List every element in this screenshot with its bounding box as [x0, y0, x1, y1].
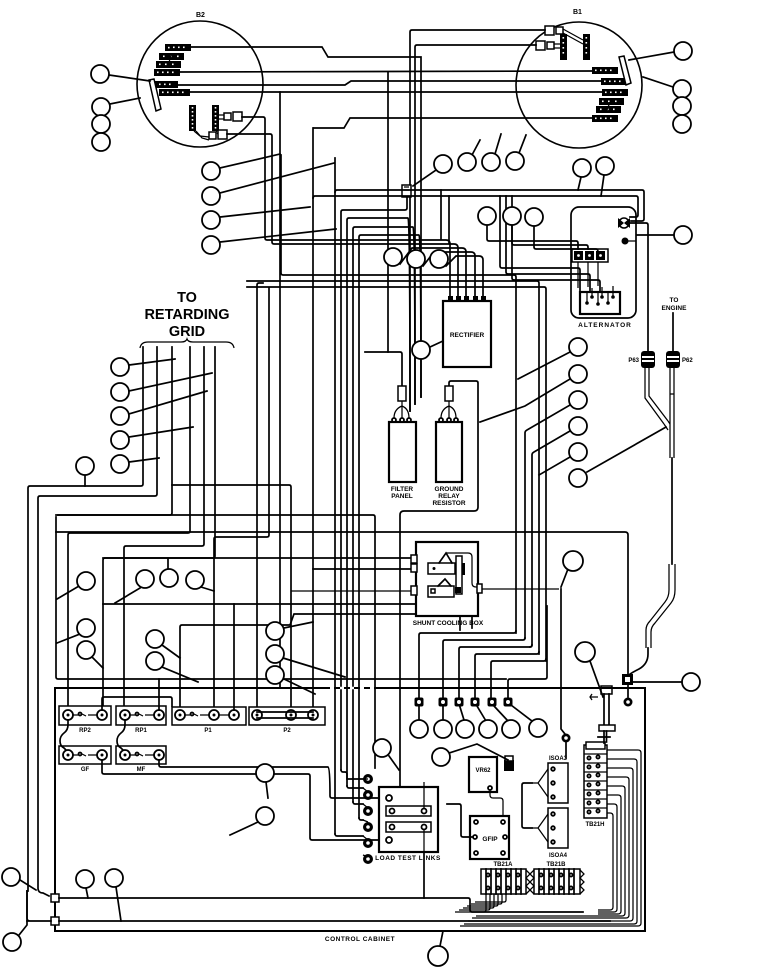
link between strips B2-2 and B2-3: [168, 55, 171, 66]
wire top run y46 from x415 to B1 connector C2: [415, 45, 536, 404]
wire bottom circle to corner: [19, 891, 27, 935]
hook RP1-L to MF-L: [117, 720, 125, 750]
wire filter panel fuse riser: [365, 352, 402, 386]
connector square right-bottom: [622, 674, 633, 685]
rectifier U1: [443, 296, 491, 367]
brace under retarding grid: [140, 339, 234, 348]
wire LTL bar2 down to bottom bus: [423, 852, 425, 898]
svg-text:B2: B2: [196, 12, 205, 19]
leader circle382: [389, 756, 399, 770]
connector B2-C1: [219, 112, 242, 121]
leader circle211,220: [220, 207, 310, 217]
shunt S2: [428, 586, 454, 597]
SCB right connector: [477, 584, 482, 593]
retarding grid wire 1: [28, 347, 143, 891]
terminal strip B2-3: [156, 61, 181, 68]
wire P2-M riser via y485: [172, 485, 291, 712]
terminal box RP1: [116, 706, 166, 734]
alternator strip to pins verticals: [578, 262, 598, 288]
terminal strip B2-2: [159, 53, 184, 60]
junction square J1: [51, 894, 59, 902]
wire X-circle to P63 drop: [630, 223, 648, 351]
svg-text:RETARDING: RETARDING: [144, 307, 229, 323]
leaders mid-left circles: [57, 559, 214, 603]
leader circle85,879: [86, 888, 88, 898]
rectifier pin wire 4: [423, 252, 475, 296]
terminal strip B2-5: [151, 81, 178, 88]
shunt S1: [428, 563, 455, 574]
wire P1-M riser x269: [214, 288, 269, 712]
wire corner into J2: [27, 891, 51, 921]
tap x449 to pin hook line: [448, 196, 450, 243]
callout circle left of rectifier box: [412, 341, 430, 359]
leader circle443,164 to connector: [413, 170, 436, 186]
riser P2-L x257 to y283: [257, 283, 263, 712]
crosshair mark: [598, 731, 610, 743]
cable below P63 (outlined): [645, 368, 668, 424]
riser x281 to long y275 to bundle: [281, 155, 516, 633]
vertical strip B2-B: [212, 105, 219, 131]
long horizontal y679 from cabinet left: [56, 517, 506, 679]
svg-text:TB21A: TB21A: [493, 862, 513, 868]
callout circle 691,682: [682, 673, 700, 691]
cable continues down right side: [671, 458, 673, 564]
LTL internal wires: [423, 782, 425, 852]
callout circle 585,652: [575, 642, 595, 662]
staircase wire 3 from x415: [353, 227, 415, 802]
svg-text:TO: TO: [670, 297, 679, 304]
wire connector down to ring terminal: [627, 685, 629, 697]
callout circle 573,561: [563, 551, 583, 571]
leaders circles 275 column: [283, 622, 345, 694]
load test links terminals: [363, 774, 373, 864]
slanted board in B2: [149, 79, 161, 111]
cable below P62 (outlined): [670, 368, 674, 458]
wire tap x388 down to onion: [387, 72, 389, 352]
long horizontal y196: [313, 196, 638, 217]
wire B2 connector C2 right to x272 riser: [227, 134, 458, 296]
terminal strip B2-1: [165, 44, 191, 51]
ring terminal ISOA feed: [562, 734, 571, 743]
svg-text:MF: MF: [137, 767, 146, 773]
svg-text:RELAY: RELAY: [438, 493, 460, 500]
leaders retarding grid circles: [85, 359, 212, 486]
junction square J2: [51, 917, 59, 925]
svg-text:TB21H: TB21H: [585, 822, 604, 828]
wire callout right to alternator: [637, 234, 674, 236]
terminal box MF: [116, 746, 166, 773]
alternator outer box: [571, 207, 636, 318]
leader mountain from circle441 to VR connector: [449, 744, 508, 760]
long horizontal y604: [103, 604, 472, 628]
callout circle 85,466: [76, 457, 94, 475]
callout circle 11,877: [2, 868, 20, 886]
leader circle578-400 becomes V2: [525, 405, 570, 638]
black terminal row under bundle: [415, 698, 513, 707]
callout circle 86,628: [77, 619, 95, 637]
terminal strip B1-1: [592, 67, 618, 74]
leader circle265,773: [266, 782, 268, 798]
callout circles right column: [569, 338, 587, 356]
alternator feed row2 wire c: [512, 196, 600, 292]
terminal feed 3: [459, 645, 532, 697]
svg-text:B1: B1: [573, 9, 582, 16]
wire RP2-R riser y558 to shunt box: [103, 557, 412, 559]
callout circle 4 left of B2: [92, 133, 110, 151]
rectifier pin wire 5: [446, 256, 483, 296]
svg-text:P62: P62: [682, 358, 693, 364]
callout circles mid-left row: [77, 572, 95, 590]
callout circle 114,878: [105, 869, 123, 887]
vertical strip B2-A: [189, 105, 196, 131]
callout circle 438,956: [428, 946, 448, 966]
leader circle683,51: [629, 52, 674, 60]
ground relay resistor: [432, 386, 465, 507]
link between strips B1-4 and B1-5: [607, 102, 610, 110]
leader bottom circle to cabinet: [440, 931, 443, 946]
leader circle578-426 becomes V3: [530, 431, 570, 647]
callout circle 2 left of B2: [92, 98, 110, 116]
connector P63: [628, 351, 655, 368]
wire B2 connector C1 right to x265 riser: [242, 117, 450, 296]
alternator feed row2 wire a: [500, 196, 580, 292]
leader circle578-347 to bundle: [518, 352, 570, 379]
terminal strip B1-4: [599, 98, 624, 105]
shunt cooling box: [411, 542, 484, 627]
svg-text:CONTROL CABINET: CONTROL CABINET: [325, 936, 395, 943]
fuse holder device right: [590, 686, 615, 742]
black dot terminal near alternator: [622, 238, 629, 245]
load test links box: [379, 782, 438, 852]
retarding grid wire 4: [68, 347, 190, 707]
terminal feed 2: [443, 638, 525, 697]
terminal strip B1-6: [592, 115, 618, 122]
retarding grid wire 5: [124, 347, 204, 707]
ground symbol X-circle: [618, 218, 630, 228]
detail circle B2: [137, 12, 263, 147]
filter panel fuse: [398, 386, 406, 401]
alternator terminal strip: [572, 249, 608, 262]
wire y515 stub: [56, 515, 375, 768]
bottom wire y921: [59, 920, 610, 922]
wire top run y29 from x410 to B1 connector: [410, 30, 545, 411]
svg-text:FILTER: FILTER: [391, 486, 414, 493]
callout circle column below B2: [202, 162, 220, 180]
connector P62: [666, 351, 693, 368]
svg-text:RP2: RP2: [79, 728, 91, 734]
TB21H strip: [584, 742, 607, 828]
detail circle B1: [516, 9, 642, 148]
wire GRR fuse top loop: [400, 381, 478, 787]
svg-text:ISOA4: ISOA4: [549, 853, 568, 859]
TB21H nest wires: [460, 750, 641, 926]
terminal box GF: [59, 746, 111, 773]
control cabinet outline: [55, 688, 645, 931]
wire tap x280 long vertical: [279, 92, 281, 688]
link bar 2: [386, 822, 431, 832]
wire P1-L riser y625: [180, 614, 460, 712]
wire B2 strip5 jog to B1 strip4: [178, 81, 601, 85]
hook to connector square: [628, 648, 648, 676]
terminal strip B2-6: [159, 89, 190, 96]
bottom wire y898: [59, 898, 583, 912]
leaders circles 582,605: [578, 175, 604, 196]
wire connector down to staircase y210: [341, 197, 407, 770]
ISOA4 box: [532, 808, 568, 859]
connector square VR: [504, 756, 514, 771]
leader from circle 585,652 to device: [590, 661, 603, 697]
svg-text:RECTIFIER: RECTIFIER: [450, 332, 485, 339]
GRR fuse: [445, 386, 453, 401]
svg-text:SHUNT COOLING BOX: SHUNT COOLING BOX: [413, 620, 484, 627]
wire connector to callout: [633, 681, 682, 683]
wire black dot to alternator edge: [625, 240, 636, 242]
callout circles retarding grid: [111, 358, 129, 376]
callout circles 275 column: [266, 622, 284, 640]
terminal strip B1-3: [602, 89, 628, 96]
wire B2 strip1 to jog and down at x421: [191, 47, 421, 397]
terminal feed 4: [475, 652, 539, 697]
slanted board in B1: [619, 56, 631, 85]
vertical x335 to load test links: [334, 158, 336, 834]
link bar 1: [386, 806, 431, 816]
connector B2-C2 with fan wires: [194, 130, 227, 140]
callout circle 605,166: [596, 157, 614, 175]
leader circle100,74 to B2 board: [109, 75, 150, 81]
LTL feeds from bundle: [335, 770, 363, 836]
alternator feed wire 2 from circle 512: [512, 225, 588, 249]
leaders terminal row to callouts: [419, 705, 532, 721]
SCB vertical bar: [456, 556, 462, 594]
leader circle265,816: [230, 822, 258, 835]
TB21A strip: [481, 862, 530, 894]
ISOA3 box: [532, 756, 568, 803]
label TO RETARDING GRID: [140, 290, 234, 348]
svg-text:GF: GF: [81, 767, 90, 773]
riser x297 to long y287 to bundle: [247, 287, 546, 661]
leader circle578-452 to bundle: [539, 457, 570, 475]
VR62 box: [469, 757, 503, 816]
vertical strip B1-B: [583, 34, 590, 60]
long horizontal y532 to right connector drop: [56, 532, 628, 674]
retarding grid wire 3: [58, 347, 172, 515]
callout circle 85,879: [76, 870, 94, 888]
alternator feed wire 1 from circle 487: [487, 225, 578, 249]
connector B1-C1: [545, 26, 583, 44]
GFIP box: [470, 816, 509, 859]
leader circle114,878: [116, 887, 121, 921]
leader circle211,196: [220, 163, 334, 193]
terminal box RP2: [59, 706, 111, 734]
callout circle 683,235: [674, 226, 692, 244]
terminal strip B1-2: [601, 78, 628, 85]
wire left circle to J1: [20, 880, 36, 890]
svg-text:TO: TO: [177, 290, 197, 306]
leader circle578-478 up to cable Y: [587, 427, 666, 472]
wire ISOA brackets left: [522, 783, 532, 828]
callout circles above rectifier: [478, 207, 496, 225]
label TO ENGINE: [662, 297, 688, 312]
svg-text:RP1: RP1: [135, 728, 147, 734]
wire P2-R riser y569 to shunt box: [313, 568, 412, 570]
hook RP2-L to GF-L: [60, 720, 68, 750]
terminal strip B1-5: [596, 106, 621, 113]
staircase wire 4 from x421: [359, 235, 421, 818]
leaders circles row below B1: [472, 134, 526, 155]
wire ring to ISOA3: [565, 742, 567, 758]
wire MF-R right to LTL: [159, 760, 381, 798]
ring terminal on cabinet edge: [624, 698, 633, 707]
wire B2 strip4 to B1 strip2 with tap at x388: [180, 71, 592, 72]
rectifier pin wire 3: [400, 248, 466, 296]
leader circle211,171: [220, 154, 280, 168]
leader circle578-374 to bundle: [480, 379, 570, 422]
TB21B strip: [530, 862, 584, 894]
svg-text:ISOA3: ISOA3: [549, 756, 568, 762]
staircase wire 2 from x410: [347, 218, 410, 786]
callout circle 3 left of B2: [92, 115, 110, 133]
terminal box P2: [249, 707, 325, 734]
wire GF-R down right to LTL: [102, 760, 381, 840]
wire RP1-R riser to y679: [158, 679, 160, 710]
svg-text:GFIP: GFIP: [482, 836, 498, 843]
callout circle 12,942: [3, 933, 21, 951]
callout circles row 729: [410, 720, 428, 738]
leader circle421,350 to rectifier: [430, 341, 443, 347]
outlined cable segment lower: [646, 564, 675, 648]
leader from circle 573,561 to ring term: [561, 569, 568, 734]
callout circle 155,639: [146, 630, 164, 648]
svg-text:ALTERNATOR: ALTERNATOR: [578, 322, 632, 329]
connector B1-C2: [536, 41, 560, 50]
alternator feed row2 wire b: [506, 196, 590, 292]
riser x289 to long y281 to bundle: [247, 281, 539, 654]
wire P1-R riser to y604: [233, 604, 235, 710]
rectifier pins: [448, 296, 453, 301]
leaders circles 155,639 155,661: [162, 645, 198, 682]
TB21A bottom wire bundle: [455, 894, 506, 912]
callout circle 265,773: [256, 764, 274, 782]
callout circles row below B1: [434, 155, 452, 173]
filter panel: [389, 386, 416, 500]
alternator inner box U2: [580, 286, 620, 314]
retarding grid wire 6: [103, 347, 215, 707]
wire TO ENGINE to P62: [672, 313, 674, 351]
tap x441 to pin hook line: [440, 190, 442, 239]
cable junction Y: [664, 421, 670, 430]
svg-text:P63: P63: [628, 358, 639, 364]
callout circle 441,757: [432, 748, 450, 766]
leader circle211,245: [220, 229, 336, 242]
hook RP2-R up link: [102, 697, 172, 710]
wire GFIP left pin loop: [447, 804, 473, 837]
terminal strip B2-4: [154, 69, 180, 76]
SCB internal wire: [446, 553, 478, 587]
svg-text:PANEL: PANEL: [391, 493, 413, 500]
leader circle682,89: [643, 77, 673, 87]
svg-text:LOAD TEST LINKS: LOAD TEST LINKS: [375, 855, 441, 862]
svg-text:GROUND: GROUND: [435, 486, 464, 493]
wire B1 strip6 run left to x313 riser: [314, 118, 592, 128]
terminal feed 1: [419, 631, 516, 697]
leader circle101,107 to B2 edge: [110, 98, 140, 104]
vertical x313 P2 right riser: [312, 128, 314, 712]
svg-text:TB21B: TB21B: [546, 862, 566, 868]
leaders circles 86,628 86,650: [57, 634, 103, 668]
callout circles left of rectifier: [384, 248, 402, 266]
svg-text:P2: P2: [283, 728, 291, 734]
svg-text:RESISTOR: RESISTOR: [432, 500, 465, 507]
callout circle 382,748: [373, 739, 391, 757]
retarding grid wire 2: [38, 347, 157, 896]
alternator feed wire 3 from circle 534: [534, 226, 598, 251]
svg-text:ENGINE: ENGINE: [662, 305, 688, 312]
callout circle 1 left of B2: [91, 65, 109, 83]
callout circle 86,650: [77, 641, 95, 659]
vertical strip B1-A: [560, 34, 567, 60]
wire y591 to shunt box: [291, 590, 412, 592]
callout circle 265,816: [256, 807, 274, 825]
connector mid top x407: [402, 185, 411, 197]
terminal feed 6 riser right: [508, 606, 547, 697]
terminal feed 5: [491, 659, 546, 697]
wire SCB right exit: [482, 588, 559, 590]
callout circles right of B1: [674, 42, 692, 60]
terminal box P1: [172, 707, 246, 734]
wire B2 strip6 to B1 strip3 with tap x280: [190, 91, 602, 93]
SCB left connector blocks: [411, 555, 417, 563]
dash-dot on cabinet top: [330, 687, 380, 690]
callout circle 155,661: [146, 652, 164, 670]
svg-text:P1: P1: [204, 728, 212, 734]
callout circle 582,168: [573, 159, 591, 177]
svg-text:VR62: VR62: [475, 768, 491, 774]
long horizontal y190: [335, 190, 644, 221]
